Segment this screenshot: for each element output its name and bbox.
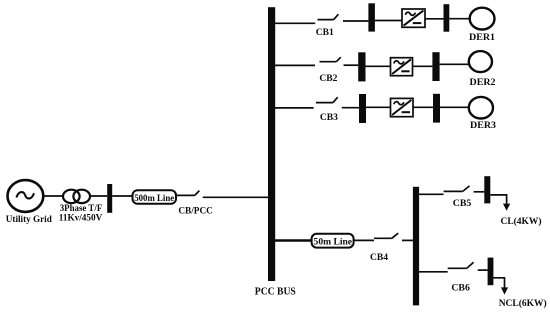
svg-text:CB3: CB3 xyxy=(320,112,338,122)
coupling bar DER3-a xyxy=(359,94,366,123)
arrow CL xyxy=(503,204,510,211)
svg-text:3Phase T/F: 3Phase T/F xyxy=(60,203,103,213)
coupling bar DER3-b xyxy=(433,94,440,123)
arrow NCL xyxy=(501,287,508,294)
wire bar to load arrow xyxy=(490,195,506,206)
wire bus to CB2 xyxy=(275,64,315,66)
svg-text:PCC BUS: PCC BUS xyxy=(255,287,296,298)
circuit breaker CB1 xyxy=(318,14,369,21)
load bus xyxy=(413,187,419,306)
wire load bus to CB5 xyxy=(419,193,444,195)
coupling bar DER1-b xyxy=(444,4,450,32)
wire bar to DER3 xyxy=(440,106,469,108)
wire PCC bus to 50m line xyxy=(275,239,312,241)
converter U3 (AC/DC) xyxy=(391,98,414,116)
svg-text:CB5: CB5 xyxy=(453,199,472,209)
line impedance block 500m Line xyxy=(133,190,177,204)
svg-text:CB6: CB6 xyxy=(451,284,470,294)
circuit breaker CB/PCC (open switch) xyxy=(176,191,268,198)
generator DER1 xyxy=(470,8,495,30)
circuit breaker CB2 xyxy=(320,57,359,65)
wire bar to converter xyxy=(366,106,391,108)
wire bar to DER2 xyxy=(440,63,469,65)
converter U2 (AC/DC) xyxy=(391,58,413,76)
circuit breaker CB6 xyxy=(448,262,488,270)
coupling bar DER2-a xyxy=(358,52,365,81)
wire bar to converter xyxy=(375,20,402,22)
svg-text:CB2: CB2 xyxy=(319,73,337,83)
wire converter to bar xyxy=(413,65,433,67)
utility grid source G1 xyxy=(8,180,44,212)
svg-text:CB/PCC: CB/PCC xyxy=(178,206,213,217)
wire bar to DER1 xyxy=(449,18,469,20)
svg-text:DER2: DER2 xyxy=(470,78,496,88)
svg-text:NCL(6KW): NCL(6KW) xyxy=(499,298,547,309)
svg-text:DER1: DER1 xyxy=(469,33,495,43)
generator DER2 xyxy=(469,51,492,72)
svg-text:DER3: DER3 xyxy=(470,121,496,131)
svg-text:11Kv/450V: 11Kv/450V xyxy=(59,213,103,223)
wire grid to transformer xyxy=(44,195,64,197)
coupling bar DER1-a xyxy=(368,3,375,31)
transformer T1 (3Phase T/F) xyxy=(63,190,90,203)
wire transformer to bus bar xyxy=(90,195,107,197)
circuit breaker CB3 xyxy=(316,97,359,108)
wire bus bar to 500m line xyxy=(112,195,132,197)
wire bar to load arrow xyxy=(493,278,504,289)
circuit breaker CB4 xyxy=(354,233,414,240)
circuit breaker CB5 xyxy=(444,186,485,192)
wire bus to CB1 xyxy=(275,22,315,24)
PCC BUS (main bus) xyxy=(268,7,275,281)
bus bar (grid side) xyxy=(107,184,112,213)
coupling bar NCL xyxy=(488,258,494,286)
wire load bus to CB6 xyxy=(419,271,448,273)
wire bar to converter xyxy=(366,65,391,67)
generator DER3 xyxy=(469,97,493,119)
svg-text:Utility Grid: Utility Grid xyxy=(6,215,53,225)
line impedance block 50m Line xyxy=(312,234,354,248)
coupling bar CL xyxy=(484,176,490,203)
svg-text:CB4: CB4 xyxy=(370,253,388,263)
converter U1 (AC/DC) xyxy=(402,9,425,27)
svg-text:500m Line: 500m Line xyxy=(134,193,175,204)
svg-text:CB1: CB1 xyxy=(316,27,334,37)
wire bus to CB3 xyxy=(275,107,314,109)
svg-text:CL(4KW): CL(4KW) xyxy=(501,216,542,227)
svg-text:50m Line: 50m Line xyxy=(314,237,353,248)
coupling bar DER2-b xyxy=(432,52,439,81)
wire converter to bar xyxy=(413,106,433,108)
wire converter to bar xyxy=(425,18,444,20)
